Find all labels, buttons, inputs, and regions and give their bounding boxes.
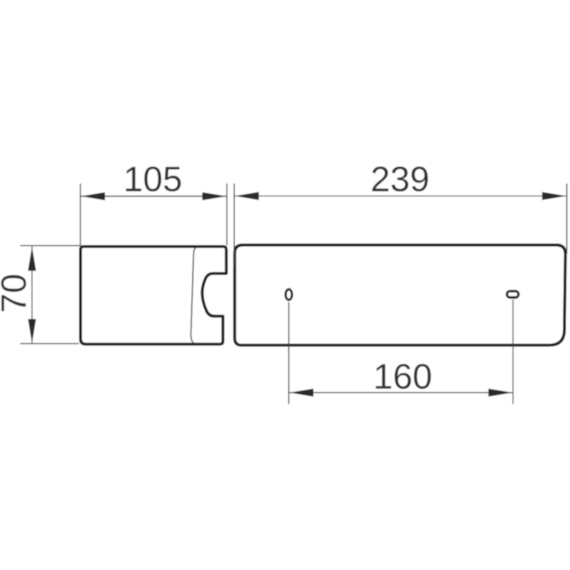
arrow 160 left — [289, 389, 313, 397]
dim line 160 — [289, 392, 513, 394]
extension line right of dim 160 — [512, 300, 514, 405]
dim text 70 — [1, 275, 26, 311]
bracket side view outline — [81, 247, 227, 345]
dim text 160 — [376, 364, 431, 389]
left slot hole — [286, 289, 292, 300]
arrow 160 right — [488, 389, 512, 397]
bracket bend tangent line — [191, 247, 197, 344]
extension line right of dim 239 — [566, 184, 568, 254]
dim line 239 — [234, 195, 567, 197]
dim text 239 — [372, 166, 428, 191]
arrow 239 left — [235, 192, 259, 200]
dim line 105 — [80, 195, 227, 197]
dim line 70 — [31, 246, 33, 343]
extension line right of dim 105 — [226, 184, 228, 246]
arrow 105 right — [202, 192, 226, 200]
arrow 70 bottom — [28, 319, 36, 343]
extension line bottom of dim 70 — [20, 343, 79, 345]
extension line top of dim 70 — [20, 245, 80, 247]
arrow 105 left — [81, 192, 105, 200]
shelf front view outline — [235, 245, 566, 345]
arrow 70 top — [28, 247, 36, 271]
right slot hole — [507, 291, 519, 297]
arrow 239 right — [542, 192, 566, 200]
dim text 105 — [126, 166, 181, 191]
extension line left of dim 160 — [288, 302, 290, 404]
extension line left of dim 239 — [233, 184, 235, 267]
extension line left of dim 105 — [79, 184, 81, 247]
